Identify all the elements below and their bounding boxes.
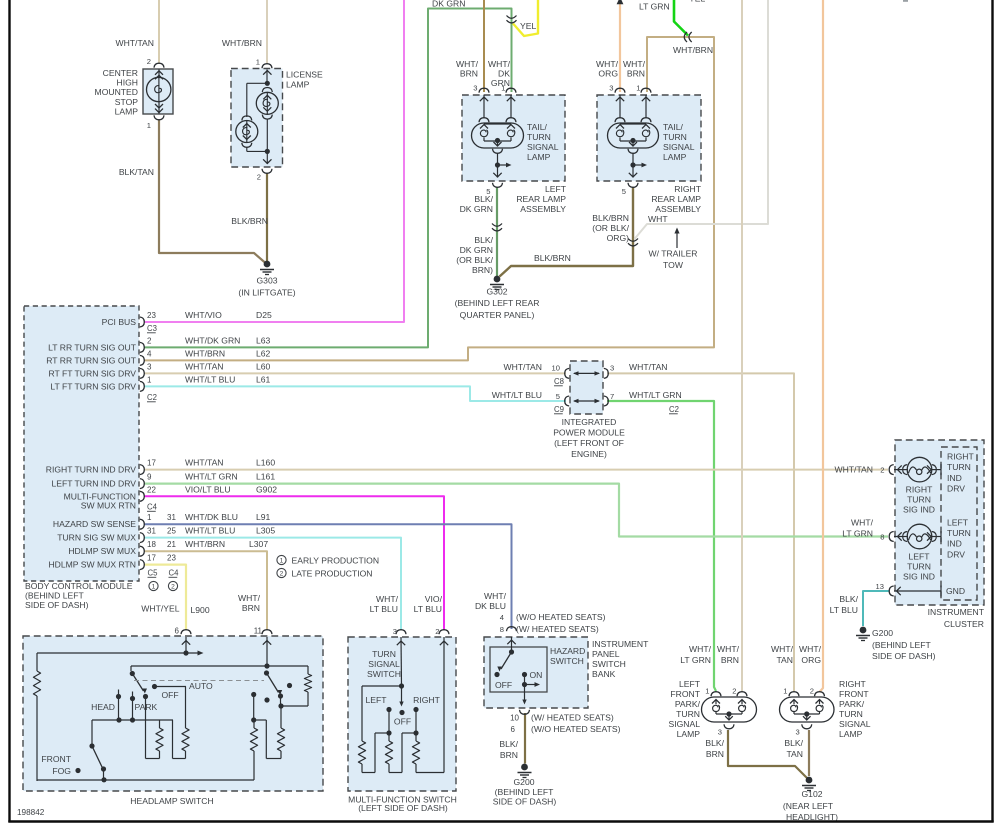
svg-text:LT GRN: LT GRN: [639, 2, 670, 12]
svg-text:WHT/: WHT/: [689, 644, 712, 654]
svg-text:G902: G902: [256, 484, 277, 494]
svg-text:G200: G200: [872, 628, 893, 638]
svg-text:LAMP: LAMP: [286, 80, 310, 90]
svg-text:RT FT TURN SIG DRV: RT FT TURN SIG DRV: [48, 368, 136, 378]
svg-text:SIG IND: SIG IND: [903, 572, 935, 582]
svg-text:FOG: FOG: [52, 766, 71, 776]
svg-text:OFF: OFF: [162, 690, 179, 700]
svg-text:LEFT TURN IND DRV: LEFT TURN IND DRV: [51, 479, 136, 489]
svg-text:DRV: DRV: [947, 483, 965, 493]
svg-text:LEFT: LEFT: [365, 695, 387, 705]
svg-text:SIG IND: SIG IND: [903, 505, 935, 515]
svg-text:CLUSTER: CLUSTER: [944, 619, 984, 629]
svg-text:L160: L160: [256, 458, 275, 468]
svg-text:22: 22: [147, 485, 156, 494]
svg-text:HDLMP SW MUX: HDLMP SW MUX: [68, 546, 136, 556]
svg-text:G303: G303: [256, 276, 277, 286]
svg-text:MOUNTED: MOUNTED: [95, 87, 138, 97]
svg-text:198842: 198842: [17, 808, 45, 817]
svg-text:1: 1: [147, 121, 151, 130]
svg-text:8: 8: [500, 625, 504, 634]
svg-text:GND: GND: [946, 586, 965, 596]
svg-text:C9: C9: [554, 405, 564, 414]
svg-text:4: 4: [500, 613, 504, 622]
svg-text:BRN: BRN: [721, 655, 739, 665]
svg-text:L307: L307: [249, 539, 268, 549]
svg-text:SWITCH: SWITCH: [592, 659, 626, 669]
svg-text:REAR LAMP: REAR LAMP: [516, 194, 566, 204]
svg-text:1: 1: [636, 84, 640, 93]
svg-text:C2: C2: [147, 393, 157, 402]
svg-text:HDLMP SW MUX RTN: HDLMP SW MUX RTN: [48, 560, 136, 570]
svg-text:(LEFT FRONT OF: (LEFT FRONT OF: [554, 438, 624, 448]
svg-text:YEL: YEL: [689, 0, 705, 4]
svg-text:SIDE OF DASH): SIDE OF DASH): [493, 796, 557, 806]
svg-text:SIGNAL: SIGNAL: [527, 142, 559, 152]
svg-text:WHT/: WHT/: [238, 593, 261, 603]
svg-text:LEFT: LEFT: [679, 679, 701, 689]
svg-text:TURN: TURN: [527, 132, 551, 142]
svg-text:3: 3: [473, 84, 477, 93]
svg-text:RT RR TURN SIG OUT: RT RR TURN SIG OUT: [46, 355, 137, 365]
svg-text:31: 31: [167, 513, 176, 522]
svg-text:WHT/BRN: WHT/BRN: [185, 348, 225, 358]
svg-text:YEL: YEL: [520, 21, 536, 31]
svg-text:(BEHIND LEFT REAR: (BEHIND LEFT REAR: [455, 298, 540, 308]
svg-text:G200: G200: [513, 777, 534, 787]
svg-text:ASSEMBLY: ASSEMBLY: [520, 204, 566, 214]
svg-text:SIGNAL: SIGNAL: [368, 659, 400, 669]
svg-text:2: 2: [280, 571, 284, 578]
svg-text:1: 1: [256, 58, 260, 67]
svg-text:7: 7: [610, 392, 614, 401]
svg-text:AUTO: AUTO: [189, 681, 213, 691]
svg-text:IND: IND: [947, 473, 962, 483]
svg-text:C4: C4: [169, 569, 180, 578]
svg-text:TURN: TURN: [907, 562, 931, 572]
svg-text:BLK/TAN: BLK/TAN: [119, 167, 154, 177]
svg-text:RIGHT: RIGHT: [674, 184, 701, 194]
svg-text:13: 13: [876, 582, 884, 591]
svg-text:SIGNAL: SIGNAL: [668, 719, 700, 729]
svg-text:TURN: TURN: [839, 709, 863, 719]
svg-text:(W/O HEATED SEATS): (W/O HEATED SEATS): [531, 724, 621, 734]
svg-text:TOW: TOW: [663, 260, 684, 270]
svg-text:WHT/TAN: WHT/TAN: [503, 362, 542, 372]
svg-text:(IN LIFTGATE): (IN LIFTGATE): [238, 288, 295, 298]
svg-text:LAMP: LAMP: [663, 152, 687, 162]
svg-text:(OR BLK/: (OR BLK/: [456, 255, 493, 265]
svg-text:WHT: WHT: [648, 214, 668, 224]
svg-text:1: 1: [152, 584, 156, 591]
svg-text:LEFT: LEFT: [545, 184, 567, 194]
svg-text:TURN SIG SW MUX: TURN SIG SW MUX: [57, 533, 136, 543]
svg-text:3: 3: [609, 84, 613, 93]
svg-text:WHT/: WHT/: [484, 591, 507, 601]
svg-text:LT RR TURN SIG OUT: LT RR TURN SIG OUT: [48, 342, 137, 352]
svg-text:(W/O HEATED SEATS): (W/O HEATED SEATS): [516, 612, 606, 622]
svg-text:ORG: ORG: [801, 655, 821, 665]
svg-text:GRN: GRN: [491, 78, 510, 88]
svg-text:SIGNAL: SIGNAL: [839, 719, 871, 729]
svg-text:SWITCH: SWITCH: [550, 656, 584, 666]
svg-text:VIO/LT BLU: VIO/LT BLU: [185, 484, 231, 494]
svg-text:PANEL: PANEL: [592, 649, 620, 659]
svg-text:ENGINE): ENGINE): [571, 449, 607, 459]
svg-text:VIO/: VIO/: [425, 594, 443, 604]
svg-text:4: 4: [147, 349, 152, 358]
svg-text:G102: G102: [801, 789, 822, 799]
svg-text:17: 17: [147, 459, 156, 468]
svg-text:TURN: TURN: [372, 649, 396, 659]
svg-text:LATE PRODUCTION: LATE PRODUCTION: [292, 569, 373, 579]
svg-text:WHT/: WHT/: [851, 518, 874, 528]
svg-text:DRV: DRV: [947, 549, 965, 559]
svg-text:WHT/: WHT/: [799, 644, 822, 654]
svg-text:21: 21: [167, 540, 176, 549]
svg-text:OFF: OFF: [394, 717, 411, 727]
svg-text:LEFT: LEFT: [947, 518, 969, 528]
svg-text:10: 10: [552, 364, 560, 373]
svg-text:WHT/VIO: WHT/VIO: [185, 310, 222, 320]
svg-text:INTEGRATED: INTEGRATED: [562, 417, 617, 427]
svg-text:11: 11: [254, 627, 263, 636]
svg-text:2: 2: [732, 687, 736, 696]
svg-text:WHT/TAN: WHT/TAN: [185, 458, 224, 468]
svg-text:HAZARD: HAZARD: [550, 646, 585, 656]
svg-text:L60: L60: [256, 361, 271, 371]
svg-text:1: 1: [147, 513, 152, 522]
svg-text:3: 3: [147, 362, 152, 371]
svg-text:BLK/: BLK/: [474, 194, 493, 204]
svg-text:TAN: TAN: [786, 749, 803, 759]
svg-text:5: 5: [622, 187, 626, 196]
svg-text:TURN: TURN: [947, 528, 971, 538]
svg-text:QUARTER PANEL): QUARTER PANEL): [460, 310, 535, 320]
svg-text:SIGNAL: SIGNAL: [663, 142, 695, 152]
svg-text:BANK: BANK: [592, 669, 616, 679]
svg-text:IND: IND: [947, 539, 962, 549]
svg-text:WHT/BRN: WHT/BRN: [222, 38, 262, 48]
svg-text:TAN: TAN: [776, 655, 793, 665]
svg-text:3: 3: [796, 728, 800, 737]
svg-text:BLK/: BLK/: [474, 235, 493, 245]
svg-text:STOP: STOP: [115, 97, 139, 107]
svg-text:TURN: TURN: [676, 709, 700, 719]
svg-text:C3: C3: [147, 324, 157, 333]
svg-text:WHT/: WHT/: [456, 59, 479, 69]
svg-text:WHT/: WHT/: [376, 594, 399, 604]
svg-text:WHT/BRN: WHT/BRN: [185, 539, 225, 549]
svg-text:WHT/TAN: WHT/TAN: [115, 38, 154, 48]
svg-text:INSTRUMENT: INSTRUMENT: [928, 607, 985, 617]
svg-text:TURN: TURN: [663, 132, 687, 142]
svg-text:PARK/: PARK/: [675, 699, 701, 709]
svg-text:TAIL/: TAIL/: [663, 122, 684, 132]
svg-text:TURN: TURN: [947, 462, 971, 472]
svg-text:BLK/BRN: BLK/BRN: [534, 253, 571, 263]
svg-text:WHT/TAN: WHT/TAN: [629, 362, 668, 372]
svg-text:FRONT: FRONT: [41, 754, 71, 764]
svg-text:(LEFT SIDE OF DASH): (LEFT SIDE OF DASH): [358, 803, 448, 813]
svg-text:23: 23: [167, 554, 176, 563]
svg-text:DK GRN: DK GRN: [460, 204, 493, 214]
svg-text:RIGHT: RIGHT: [947, 452, 974, 462]
svg-text:3: 3: [718, 728, 722, 737]
svg-text:BRN: BRN: [706, 749, 724, 759]
svg-text:PCI BUS: PCI BUS: [102, 317, 137, 327]
svg-text:3: 3: [393, 627, 397, 636]
svg-text:BLK/: BLK/: [705, 738, 724, 748]
svg-text:(NEAR LEFT: (NEAR LEFT: [783, 801, 834, 811]
svg-text:W/ TRAILER: W/ TRAILER: [648, 249, 697, 259]
svg-text:DK: DK: [498, 69, 510, 79]
svg-text:RIGHT TURN IND DRV: RIGHT TURN IND DRV: [46, 465, 137, 475]
svg-text:ORG): ORG): [607, 233, 630, 243]
svg-text:FRONT: FRONT: [670, 689, 700, 699]
svg-text:BLK/: BLK/: [839, 594, 858, 604]
svg-text:ASSEMBLY: ASSEMBLY: [655, 204, 701, 214]
svg-text:WHT/LT GRN: WHT/LT GRN: [185, 472, 238, 482]
svg-text:TURN: TURN: [907, 495, 931, 505]
svg-text:BLK/BRN: BLK/BRN: [231, 216, 268, 226]
svg-text:OFF: OFF: [495, 680, 512, 690]
svg-text:(W/ HEATED SEATS): (W/ HEATED SEATS): [516, 624, 599, 634]
svg-text:CENTER: CENTER: [103, 68, 138, 78]
svg-text:WHT/LT BLU: WHT/LT BLU: [492, 390, 542, 400]
svg-text:C5: C5: [148, 569, 159, 578]
svg-text:1: 1: [705, 687, 709, 696]
svg-text:L305: L305: [256, 526, 275, 536]
svg-text:WHT/TAN: WHT/TAN: [185, 361, 224, 371]
svg-text:L161: L161: [256, 472, 275, 482]
svg-text:L63: L63: [256, 335, 271, 345]
svg-text:LAMP: LAMP: [115, 106, 139, 116]
svg-text:REAR LAMP: REAR LAMP: [651, 194, 701, 204]
svg-text:BRN: BRN: [460, 69, 478, 79]
svg-text:SIDE OF DASH): SIDE OF DASH): [25, 600, 89, 610]
svg-text:(W/ HEATED SEATS): (W/ HEATED SEATS): [531, 713, 614, 723]
svg-text:(OR BLK/: (OR BLK/: [592, 223, 629, 233]
svg-text:RIGHT: RIGHT: [906, 485, 933, 495]
svg-text:INSTRUMENT: INSTRUMENT: [592, 639, 649, 649]
svg-text:L61: L61: [256, 374, 271, 384]
svg-text:L900: L900: [191, 605, 210, 615]
svg-text:WHT/LT GRN: WHT/LT GRN: [629, 390, 682, 400]
svg-text:WHT/DK GRN: WHT/DK GRN: [185, 335, 240, 345]
svg-text:LT BLU: LT BLU: [370, 604, 398, 614]
svg-text:WHT/: WHT/: [488, 59, 511, 69]
svg-text:WHT/: WHT/: [596, 59, 619, 69]
svg-text:2: 2: [147, 336, 152, 345]
svg-text:SIDE OF DASH): SIDE OF DASH): [872, 651, 936, 661]
svg-text:31: 31: [147, 527, 156, 536]
svg-text:LICENSE: LICENSE: [286, 70, 323, 80]
svg-text:RIGHT: RIGHT: [839, 679, 866, 689]
svg-text:8: 8: [880, 533, 884, 542]
svg-text:SWITCH: SWITCH: [367, 669, 401, 679]
svg-text:FRONT: FRONT: [839, 689, 869, 699]
svg-text:10: 10: [510, 714, 519, 723]
svg-text:TAIL/: TAIL/: [527, 122, 548, 132]
svg-text:2: 2: [880, 466, 884, 475]
svg-text:WHT/DK BLU: WHT/DK BLU: [185, 512, 238, 522]
svg-text:ON: ON: [530, 670, 543, 680]
svg-text:LT BLU: LT BLU: [414, 604, 442, 614]
svg-text:3: 3: [610, 364, 614, 373]
svg-text:LAMP: LAMP: [527, 152, 551, 162]
svg-text:(BEHIND LEFT: (BEHIND LEFT: [25, 591, 84, 601]
svg-text:BRN: BRN: [627, 69, 645, 79]
svg-text:17: 17: [147, 554, 156, 563]
svg-text:C2: C2: [669, 405, 679, 414]
svg-text:6: 6: [175, 627, 180, 636]
svg-text:6: 6: [511, 725, 516, 734]
svg-text:L62: L62: [256, 348, 271, 358]
svg-text:BRN: BRN: [242, 603, 260, 613]
svg-text:(BEHIND LEFT: (BEHIND LEFT: [495, 787, 554, 797]
svg-text:1: 1: [280, 558, 284, 565]
svg-text:HEAD: HEAD: [91, 702, 115, 712]
svg-text:WHT/: WHT/: [717, 644, 740, 654]
svg-text:HEADLAMP SWITCH: HEADLAMP SWITCH: [130, 796, 213, 806]
svg-text:LT FT TURN SIG DRV: LT FT TURN SIG DRV: [50, 381, 136, 391]
svg-text:WHT/BRN: WHT/BRN: [673, 45, 713, 55]
svg-text:C8: C8: [554, 377, 564, 386]
svg-text:HIGH: HIGH: [117, 78, 138, 88]
svg-text:D25: D25: [256, 310, 272, 320]
svg-text:BODY CONTROL MODULE: BODY CONTROL MODULE: [25, 581, 133, 591]
svg-text:2: 2: [147, 57, 151, 66]
svg-text:POWER MODULE: POWER MODULE: [553, 428, 625, 438]
svg-text:LT BLU: LT BLU: [830, 605, 858, 615]
svg-text:WHT/LT BLU: WHT/LT BLU: [185, 526, 235, 536]
svg-text:WHT/YEL: WHT/YEL: [141, 604, 179, 614]
svg-text:9: 9: [147, 473, 152, 482]
svg-text:BRN): BRN): [472, 265, 493, 275]
svg-text:WHT/: WHT/: [623, 59, 646, 69]
svg-text:2: 2: [171, 584, 175, 591]
svg-text:SW MUX RTN: SW MUX RTN: [81, 501, 136, 511]
svg-text:18: 18: [147, 540, 156, 549]
svg-text:WHT/TAN: WHT/TAN: [834, 465, 873, 475]
svg-text:23: 23: [147, 311, 156, 320]
svg-text:EARLY PRODUCTION: EARLY PRODUCTION: [292, 556, 380, 566]
svg-text:C4: C4: [147, 503, 158, 512]
svg-text:DK BLU: DK BLU: [475, 601, 506, 611]
svg-text:1: 1: [783, 687, 787, 696]
svg-text:L91: L91: [256, 512, 271, 522]
svg-text:BLK/BRN: BLK/BRN: [592, 213, 629, 223]
svg-text:HAZARD SW SENSE: HAZARD SW SENSE: [53, 519, 136, 529]
svg-text:WHT/LT BLU: WHT/LT BLU: [185, 374, 235, 384]
svg-text:WHT/: WHT/: [771, 644, 794, 654]
svg-text:LEFT: LEFT: [908, 552, 930, 562]
svg-text:BLK/: BLK/: [499, 739, 518, 749]
svg-text:2: 2: [257, 173, 261, 182]
svg-text:LT GRN: LT GRN: [680, 655, 711, 665]
svg-text:RIGHT: RIGHT: [413, 695, 440, 705]
svg-text:DK GRN: DK GRN: [432, 0, 465, 9]
svg-text:2: 2: [435, 627, 439, 636]
svg-text:LT GRN: LT GRN: [842, 529, 873, 539]
svg-text:LAMP: LAMP: [677, 729, 701, 739]
svg-text:25: 25: [167, 527, 176, 536]
svg-text:5: 5: [556, 392, 560, 401]
svg-text:BRN: BRN: [500, 750, 518, 760]
svg-text:BLK/: BLK/: [784, 738, 803, 748]
svg-text:PARK/: PARK/: [839, 699, 865, 709]
svg-text:2: 2: [810, 687, 814, 696]
svg-text:DK GRN: DK GRN: [460, 245, 493, 255]
svg-text:(BEHIND LEFT: (BEHIND LEFT: [872, 640, 931, 650]
svg-text:1: 1: [147, 375, 152, 384]
svg-text:LAMP: LAMP: [839, 729, 863, 739]
svg-text:ORG: ORG: [598, 69, 618, 79]
svg-text:G302: G302: [486, 287, 507, 297]
